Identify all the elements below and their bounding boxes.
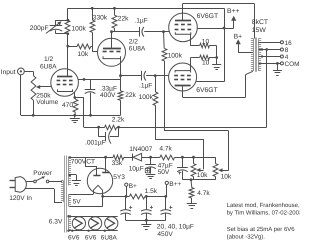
- svg-text:6V6: 6V6: [68, 235, 80, 242]
- svg-text:470: 470: [62, 102, 73, 109]
- svg-text:(about -32Vg).: (about -32Vg).: [227, 233, 266, 240]
- transformer T1 power 700VCT: [64, 156, 66, 233]
- wire bias rail: [149, 156, 152, 159]
- resistor 470 cathode first stage: [73, 96, 76, 99]
- capacitor 10uF filter: [165, 196, 167, 209]
- heater lamp 6V6 no2: [89, 217, 102, 230]
- wire splitter grid: [92, 51, 97, 53]
- svg-text:COM: COM: [285, 61, 300, 68]
- wire plug neutral to transformer primary: [25, 188, 54, 190]
- svg-text:.1µF: .1µF: [134, 17, 147, 24]
- wire common cathode to ground: [216, 46, 218, 65]
- svg-text:8: 8: [285, 47, 289, 54]
- svg-text:200pF: 200pF: [30, 25, 49, 32]
- transformer T2 output 8kCT 15W: [255, 38, 257, 72]
- svg-text:B++: B++: [169, 181, 181, 188]
- capacitor 40uF filter: [146, 196, 148, 209]
- svg-text:10k: 10k: [221, 174, 232, 181]
- wire bottom 6V6 screen to B++: [196, 81, 224, 83]
- tube U2 phase splitter 2/2 6U8A: [98, 38, 126, 66]
- resistor 4.7k bias return: [190, 180, 193, 188]
- svg-text:6.3V: 6.3V: [49, 219, 63, 226]
- node B++ rail (preamp supply rail): [68, 8, 224, 10]
- wire top 6V6 cathode: [190, 34, 192, 46]
- svg-text:700VCT: 700VCT: [71, 158, 95, 165]
- wire HV secondary top to rectifier: [69, 157, 114, 159]
- ground filter caps: [146, 220, 148, 224]
- potentiometer 10k bias pot 2: [215, 157, 217, 163]
- tube V1 top 6V6GT: [169, 13, 198, 42]
- capacitor .001uF feedback: [98, 127, 100, 137]
- wire speaker tap 16: [259, 42, 281, 44]
- wire screen feed first stage: [78, 79, 120, 81]
- svg-text:22k: 22k: [125, 92, 136, 99]
- wire heater rail top 6.3V: [69, 216, 118, 218]
- svg-text:5Y3: 5Y3: [113, 174, 125, 181]
- svg-text:16: 16: [285, 40, 293, 47]
- wire 5Y3 filament to 5V winding: [93, 190, 95, 194]
- wire input jack to volume pot: [24, 71, 33, 73]
- svg-text:4.7k: 4.7k: [159, 146, 172, 153]
- wire feedback to first cathode: [75, 97, 84, 99]
- wire bottom 6V6 plate to output transformer: [183, 97, 246, 99]
- node B++ terminal: [165, 181, 168, 184]
- node B++ arrow: [233, 20, 235, 28]
- wire bias pots bottom rail: [182, 179, 215, 181]
- capacitor 47uF 50V bias reservoir: [182, 157, 184, 167]
- node B+ terminal: [125, 183, 128, 186]
- wire feedback line from 8 ohm tap: [117, 127, 267, 129]
- wire speaker tap 8: [259, 49, 281, 51]
- svg-text:B+: B+: [129, 183, 137, 190]
- svg-text:22k: 22k: [118, 16, 129, 23]
- resistor 2.2k feedback: [105, 125, 117, 130]
- wire speaker tap 4: [259, 56, 281, 58]
- potentiometer 250k volume: [31, 76, 36, 101]
- node B+ arrow to centre tap: [238, 43, 240, 52]
- diode D1 1N4007: [132, 154, 134, 161]
- wire input jack sleeve to ground rail: [20, 75, 22, 115]
- svg-text:8kCT: 8kCT: [252, 19, 268, 26]
- wire top 6V6 plate to output transformer: [183, 3, 255, 5]
- svg-text:B++: B++: [227, 8, 240, 15]
- resistor 330k: [90, 20, 95, 32]
- svg-text:100k: 100k: [168, 52, 183, 59]
- resistor 22k splitter cathode load: [120, 76, 122, 91]
- wire B+ rail from rectifier: [103, 196, 130, 198]
- svg-text:6U8A: 6U8A: [40, 64, 57, 71]
- resistor 4.7k bias dropper: [160, 155, 175, 160]
- svg-text:10k: 10k: [78, 51, 89, 58]
- node AC plug 120V: [15, 177, 26, 193]
- svg-text:20, 40, 10µF: 20, 40, 10µF: [157, 224, 194, 231]
- svg-text:Power: Power: [33, 170, 52, 177]
- resistor 100k grid bottom 6V6: [155, 76, 157, 92]
- svg-text:50V: 50V: [158, 169, 170, 176]
- capacitor 20uF filter: [125, 196, 127, 209]
- capacitor 10uF bias filter: [150, 157, 152, 164]
- capacitor 200pF trimmer: [56, 20, 68, 22]
- svg-text:.001µF: .001µF: [85, 139, 106, 146]
- resistor 100k plate load first stage: [67, 8, 69, 20]
- svg-text:400V: 400V: [100, 92, 116, 99]
- capacitor .1uF bottom coupling: [121, 75, 142, 77]
- svg-text:330k: 330k: [93, 15, 108, 22]
- svg-text:1N4007: 1N4007: [129, 146, 152, 153]
- svg-text:Volume: Volume: [36, 99, 58, 106]
- svg-text:6V6GT: 6V6GT: [197, 13, 219, 20]
- resistor 100k grid top 6V6: [163, 32, 166, 49]
- wire bottom 6V6 cathode: [190, 58, 192, 71]
- capacitor .1uF top coupling: [110, 30, 113, 33]
- wire filter caps common: [126, 220, 166, 222]
- resistor 10k coupling: [68, 46, 77, 48]
- wire heater rail bottom: [69, 230, 118, 232]
- svg-text:33k: 33k: [112, 160, 123, 167]
- svg-text:Latest mod, Frankenhouse,: Latest mod, Frankenhouse,: [227, 202, 300, 209]
- resistor 33k bias feed: [113, 155, 124, 160]
- svg-text:2/2: 2/2: [129, 39, 138, 46]
- resistor 10 top cathode: [200, 43, 210, 48]
- svg-text:10: 10: [202, 60, 210, 67]
- resistor 10 bottom cathode: [200, 55, 210, 60]
- wire switch to transformer primary: [49, 181, 62, 183]
- svg-text:10µF: 10µF: [129, 165, 144, 172]
- wire bias feed to top 6V6 grid resistor: [164, 61, 166, 131]
- tube V3 rectifier 5Y3: [87, 168, 112, 193]
- svg-text:.1µF: .1µF: [139, 83, 152, 90]
- tube U1 first stage 1/2 6U8A: [51, 69, 79, 97]
- svg-text:5V: 5V: [73, 198, 82, 205]
- svg-text:2.2k: 2.2k: [112, 117, 125, 124]
- capacitor .33uF 400V screen bypass: [90, 79, 92, 89]
- svg-text:100k: 100k: [72, 26, 87, 33]
- heater lamp 6U8A: [105, 217, 118, 230]
- wire splitter cathode node: [119, 74, 122, 77]
- heater lamp 6V6 no1: [72, 217, 85, 230]
- svg-text:Input: Input: [1, 69, 16, 76]
- ground speaker common: [277, 63, 279, 70]
- ground cathode resistors: [212, 64, 221, 66]
- resistor 22k phase splitter plate load: [114, 8, 116, 15]
- svg-text:B+: B+: [234, 33, 243, 40]
- ground preamp: [74, 115, 76, 117]
- svg-text:10k: 10k: [197, 172, 208, 179]
- svg-text:15W: 15W: [252, 27, 267, 34]
- svg-text:4.7k: 4.7k: [197, 190, 210, 197]
- svg-text:450V: 450V: [157, 231, 173, 238]
- svg-text:120V In: 120V In: [9, 195, 32, 202]
- svg-text:Set bias at 25mA per 6V6: Set bias at 25mA per 6V6: [227, 226, 296, 233]
- svg-text:1/2: 1/2: [44, 56, 53, 63]
- wire bias feed to bottom 6V6 grid resistor: [155, 106, 157, 140]
- resistor 1.5k filter: [129, 194, 145, 199]
- potentiometer 10k bias pot 1: [193, 157, 195, 163]
- svg-text:6V6: 6V6: [85, 235, 97, 242]
- ground bias return: [187, 203, 197, 205]
- svg-text:6U8A: 6U8A: [101, 235, 118, 242]
- wire top 6V6 screen to B++: [198, 28, 225, 30]
- tube V2 bottom 6V6GT: [169, 63, 197, 91]
- ground bias filter: [146, 174, 156, 176]
- svg-text:by Tim Williams, 07-02-2003.: by Tim Williams, 07-02-2003.: [227, 210, 300, 217]
- wire B++ feed down right side: [224, 8, 226, 82]
- svg-text:100k: 100k: [139, 94, 154, 101]
- wire HV lower lead to 5Y3 left plate: [85, 157, 87, 167]
- wire preamp ground rail: [21, 115, 121, 117]
- wire speaker tap COM: [259, 63, 281, 65]
- svg-text:6V6GT: 6V6GT: [196, 87, 218, 94]
- svg-text:10: 10: [202, 39, 210, 46]
- switch power: [26, 181, 34, 183]
- ground HV centre tap: [69, 174, 72, 177]
- svg-text:1.5k: 1.5k: [145, 188, 158, 195]
- svg-text:6U8A: 6U8A: [129, 46, 146, 53]
